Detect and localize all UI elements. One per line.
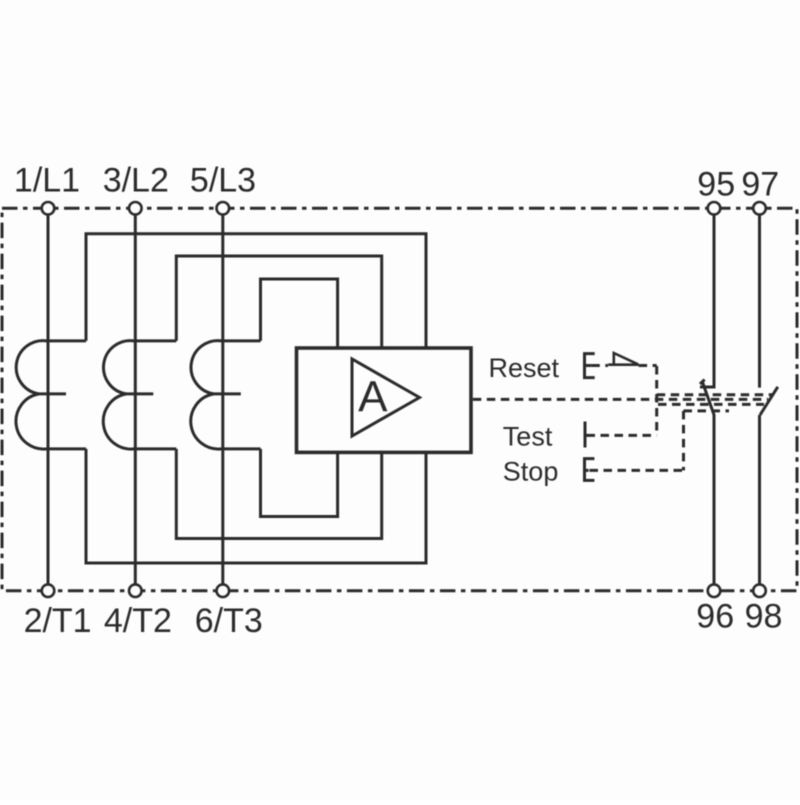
- contact 95-96 blade: [702, 381, 714, 414]
- reset button bracket: [585, 354, 595, 378]
- svg-text:4/T2: 4/T2: [104, 602, 172, 640]
- contact 97-98 blade: [760, 387, 778, 415]
- dashed link reset: [591, 364, 656, 367]
- svg-text:96: 96: [696, 597, 734, 635]
- dashed link test: [587, 434, 657, 437]
- current sensor T2: [103, 341, 176, 449]
- terminal 95: [708, 202, 721, 215]
- dashed link stop: [590, 469, 684, 472]
- dashed riser stop: [682, 411, 685, 471]
- sensor loop L1: [86, 234, 426, 563]
- test button bar: [584, 422, 587, 448]
- svg-text:3/L2: 3/L2: [103, 161, 169, 199]
- dashed riser reset-test: [655, 366, 658, 435]
- enclosure border (chain line): [2, 208, 797, 590]
- current sensor T3: [191, 341, 261, 449]
- svg-text:5/L3: 5/L3: [190, 161, 256, 199]
- dashed link: amplifier output: [473, 398, 768, 401]
- reset spring-return flag: [608, 353, 638, 365]
- svg-text:98: 98: [745, 597, 783, 635]
- terminal 3/L2: [129, 202, 142, 215]
- terminal 4/T2: [129, 584, 142, 597]
- dashed link: lower linkage: [658, 403, 764, 406]
- svg-text:Stop: Stop: [503, 456, 559, 486]
- amplifier triangle: [352, 359, 420, 436]
- svg-text:A: A: [358, 372, 388, 421]
- stop button bracket: [585, 459, 595, 481]
- wire phase L3: [221, 215, 224, 584]
- terminal 2/T1: [42, 584, 55, 597]
- svg-text:Reset: Reset: [489, 353, 560, 383]
- svg-text:97: 97: [741, 165, 779, 203]
- terminal 98: [753, 584, 766, 597]
- contact 95-96 trip tick: [700, 380, 705, 384]
- terminal 6/T3: [217, 584, 230, 597]
- current sensor T1: [16, 341, 86, 449]
- wire 97 lead: [758, 215, 761, 388]
- sensor loop L2: [176, 256, 381, 539]
- contact 95-96 seat: [700, 386, 716, 389]
- terminal 1/L1: [42, 202, 55, 215]
- svg-text:2/T1: 2/T1: [24, 602, 92, 640]
- svg-text:6/T3: 6/T3: [195, 602, 263, 640]
- dashed link: upper linkage: [657, 393, 772, 396]
- amplifier box U1: [297, 348, 472, 452]
- wire 98 lead: [758, 415, 761, 584]
- dashed link: stop linkage: [684, 409, 730, 412]
- svg-text:Test: Test: [503, 422, 553, 452]
- terminal 97: [753, 202, 766, 215]
- wire 95 lead: [713, 215, 716, 386]
- wire phase L1: [47, 215, 50, 584]
- sensor loop L3: [261, 279, 338, 517]
- wire phase L2: [134, 215, 137, 584]
- wire 96 lead: [713, 414, 716, 584]
- terminal 96: [708, 584, 721, 597]
- svg-text:95: 95: [697, 165, 735, 203]
- terminal 5/L3: [217, 202, 230, 215]
- svg-text:1/L1: 1/L1: [14, 161, 80, 199]
